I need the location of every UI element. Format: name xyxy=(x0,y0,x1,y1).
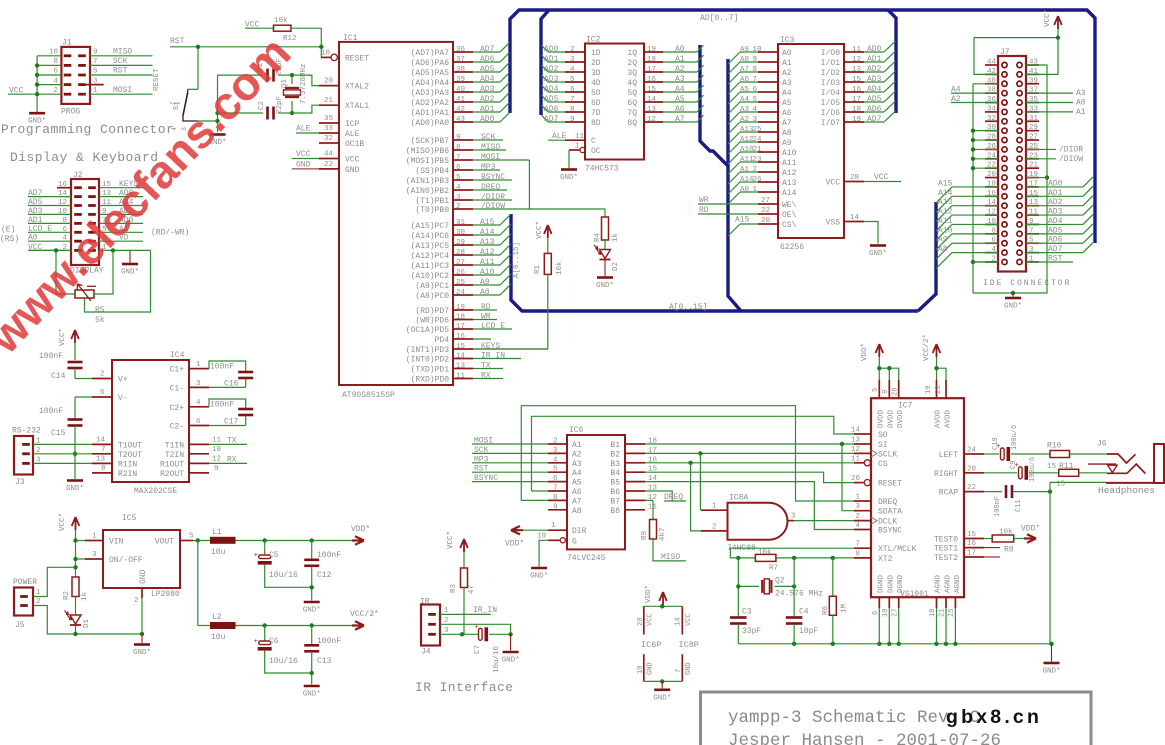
resistor R11 15 xyxy=(1056,462,1107,489)
svg-text:IC6: IC6 xyxy=(569,426,584,435)
svg-text:IC6P: IC6P xyxy=(641,640,661,650)
ic IC7 VS1001 box xyxy=(871,398,964,599)
wire ALE net at IC1 xyxy=(296,125,319,134)
svg-text:C11: C11 xyxy=(1015,499,1023,512)
pin J7 6 left xyxy=(991,237,996,245)
ic IC5 LP2980 box xyxy=(103,514,180,599)
svg-text:1: 1 xyxy=(575,143,580,151)
svg-text:DCLK: DCLK xyxy=(878,518,897,527)
svg-text:2D: 2D xyxy=(591,59,601,68)
supply arrow VCC/2* xyxy=(350,610,379,630)
svg-text:I/O6: I/O6 xyxy=(821,109,840,118)
wire IC2 OC to ground xyxy=(568,150,570,168)
svg-text:5: 5 xyxy=(570,76,575,84)
svg-text:1: 1 xyxy=(551,522,556,530)
capacitor C1 22pF xyxy=(218,58,293,82)
supply arrow VDD* at DIR xyxy=(505,526,524,549)
svg-text:A2: A2 xyxy=(740,116,749,124)
pin IC5 VIN 1 xyxy=(76,533,104,541)
svg-text:R7: R7 xyxy=(769,565,778,573)
wire IC6P IC8P GND rail xyxy=(644,680,683,682)
wire J7 pin 24 to gnd rail xyxy=(971,157,998,161)
svg-text:6: 6 xyxy=(753,86,758,94)
svg-text:20: 20 xyxy=(324,78,334,86)
junction dots at Q1 xyxy=(290,73,294,115)
pin IC3 A10 21 net A10 xyxy=(728,146,797,164)
pin IC8A 2 xyxy=(691,463,728,532)
svg-text:A6: A6 xyxy=(740,76,750,84)
VCC label at R12 xyxy=(245,21,260,30)
svg-text:GND*: GND* xyxy=(121,269,139,277)
pin J7 21 right xyxy=(1029,162,1039,170)
svg-text:T2OUT: T2OUT xyxy=(118,451,142,460)
svg-text:24: 24 xyxy=(967,447,977,455)
svg-text:8: 8 xyxy=(101,465,106,473)
pin IC1 RESET 10 xyxy=(321,50,369,64)
svg-text:3: 3 xyxy=(855,503,860,511)
junction dot C11 xyxy=(1048,489,1052,493)
supply arrow VDD* at R8 xyxy=(1021,525,1040,543)
svg-text:PROG: PROG xyxy=(61,108,80,117)
svg-text:KEYS: KEYS xyxy=(481,342,500,351)
svg-text:AT90S8515SP: AT90S8515SP xyxy=(342,391,395,400)
svg-text:A15: A15 xyxy=(480,218,495,227)
svg-text:VSS: VSS xyxy=(826,219,841,228)
ground GND* below IC2 xyxy=(560,170,578,183)
potentiometer R5 5k xyxy=(75,284,105,325)
svg-text:I/O5: I/O5 xyxy=(821,99,840,108)
pin IC5 VOUT 5 xyxy=(180,533,210,541)
svg-text:(AD4)PA4: (AD4)PA4 xyxy=(411,79,450,88)
svg-text:3: 3 xyxy=(570,56,575,64)
pin J7 11 right xyxy=(1029,209,1039,217)
svg-text:A4: A4 xyxy=(782,89,792,98)
supply arrow VDD* xyxy=(351,525,370,545)
wire VCC rail at J5 xyxy=(75,541,77,578)
pin J1-3 stub xyxy=(86,84,104,86)
pin IC7 TEST1 TEST2 stubs xyxy=(984,548,1000,557)
wire IC6 G to ground xyxy=(539,540,548,566)
svg-text:RST: RST xyxy=(113,67,128,76)
svg-text:(INT1)PD3: (INT1)PD3 xyxy=(406,346,449,355)
svg-text:CS\: CS\ xyxy=(782,221,797,230)
svg-text:A8: A8 xyxy=(782,129,792,138)
pin J7 19 right xyxy=(1029,171,1038,179)
svg-text:GND*: GND* xyxy=(596,282,614,290)
svg-text:AGND: AGND xyxy=(945,574,953,593)
pin IC4 C2+ 4 and capacitor C17 100nF xyxy=(170,399,254,416)
svg-text:4k7: 4k7 xyxy=(659,527,667,541)
svg-text:(SCK)PB7: (SCK)PB7 xyxy=(411,137,450,146)
pin IC3 I/O5 17 net AD5 xyxy=(821,91,896,108)
svg-text:GND*: GND* xyxy=(303,691,321,699)
svg-text:A9: A9 xyxy=(938,236,948,245)
pin IC3 VCC 28 xyxy=(826,173,901,188)
svg-text:+: + xyxy=(254,638,258,646)
wire J7 right A3 A0 A1 xyxy=(1026,89,1086,117)
pin J7 1 right xyxy=(1029,255,1034,263)
pin IC2 4D 5 net AD3 xyxy=(542,75,601,88)
svg-text:AD1: AD1 xyxy=(867,55,882,64)
svg-text:19: 19 xyxy=(925,386,933,394)
pin J7 14 left xyxy=(987,199,997,207)
svg-text:(E): (E) xyxy=(1,226,15,235)
svg-text:10k: 10k xyxy=(274,17,288,25)
svg-text:8: 8 xyxy=(456,144,461,152)
svg-text:10: 10 xyxy=(321,50,331,58)
svg-text:100u/6: 100u/6 xyxy=(1011,425,1019,450)
pin J7 38 left xyxy=(987,87,996,95)
svg-text:MISO: MISO xyxy=(661,553,680,562)
svg-text:ALE: ALE xyxy=(296,125,311,134)
svg-text:6: 6 xyxy=(196,418,201,426)
svg-text:32: 32 xyxy=(324,135,333,143)
svg-text:C1+: C1+ xyxy=(170,366,185,375)
pin J7 36 left xyxy=(987,96,997,104)
svg-text:TEST1: TEST1 xyxy=(934,545,958,554)
pin IC7 DREQ 1 xyxy=(854,494,897,508)
switch S1 reset xyxy=(153,68,198,121)
wire J7 net A13 to bus xyxy=(936,198,998,222)
ground GND* below D2 xyxy=(596,260,614,291)
svg-text:A4: A4 xyxy=(740,96,750,104)
svg-text:9: 9 xyxy=(214,465,219,473)
svg-text:7: 7 xyxy=(553,485,558,493)
svg-text:1: 1 xyxy=(855,494,860,502)
svg-text:17: 17 xyxy=(456,323,465,331)
svg-text:A7: A7 xyxy=(572,497,582,506)
title block frame xyxy=(701,692,1092,745)
svg-text:IC3: IC3 xyxy=(780,36,795,45)
svg-text:7: 7 xyxy=(753,76,758,84)
svg-text:GND: GND xyxy=(296,160,311,169)
svg-text:A14: A14 xyxy=(938,189,953,198)
svg-text:ALE: ALE xyxy=(345,130,360,139)
svg-text:(AD1)PA1: (AD1)PA1 xyxy=(411,109,450,118)
pin IC7 XT2 8 xyxy=(854,550,893,564)
svg-text:+: + xyxy=(475,623,479,631)
svg-text:A11: A11 xyxy=(782,159,797,168)
pin J2 9 right net AD2 xyxy=(99,207,143,216)
pin IC3 A6 4 net A3 xyxy=(728,106,792,124)
wire J7 net AD5 to bus xyxy=(1026,224,1093,236)
pin IC1 (A10)PC2 26 net A10 xyxy=(411,264,511,281)
junction dots VDD stubs xyxy=(877,366,891,370)
supply VCC/2* above IC7 xyxy=(923,334,946,380)
wire XTAL2 net xyxy=(292,75,321,86)
svg-text:/DIOR: /DIOR xyxy=(1059,145,1083,154)
svg-text:3D: 3D xyxy=(591,69,601,78)
svg-text:(A8)PC0: (A8)PC0 xyxy=(415,292,449,301)
svg-text:DIR: DIR xyxy=(572,527,587,536)
svg-text:15: 15 xyxy=(1056,481,1066,489)
pin IC1 (A14)PC6 30 net A14 xyxy=(411,224,511,241)
svg-text:AD5: AD5 xyxy=(480,65,495,74)
svg-text:GND*: GND* xyxy=(560,174,578,182)
supply VDD* at IC6P xyxy=(645,585,667,606)
pin IC7 DVDD 5 9 28 xyxy=(872,380,905,428)
svg-text:14: 14 xyxy=(675,618,683,626)
connector J3 RS-232 xyxy=(12,427,41,488)
svg-text:2: 2 xyxy=(570,46,575,54)
wire J7 net AD4 to bus xyxy=(1026,214,1093,226)
connector J5 POWER xyxy=(13,578,41,630)
svg-text:10u/16: 10u/16 xyxy=(269,657,298,666)
pin J7 2 left xyxy=(991,255,996,263)
pin IC6 B8 11 xyxy=(610,503,657,516)
connector J6 headphone jack xyxy=(1088,440,1164,484)
wire XTL/MCLK net xyxy=(730,548,854,558)
svg-text:IC8A: IC8A xyxy=(729,494,748,503)
svg-text:XTL/MCLK: XTL/MCLK xyxy=(878,545,917,554)
pin IC1 GND 22 xyxy=(292,160,360,175)
svg-text:43: 43 xyxy=(456,116,466,124)
svg-text:A5: A5 xyxy=(675,95,685,104)
wire crystal right column xyxy=(793,558,795,617)
svg-text:28: 28 xyxy=(850,174,859,182)
svg-text:GND*: GND* xyxy=(303,607,321,615)
svg-text:4: 4 xyxy=(456,184,461,192)
svg-text:DREQ: DREQ xyxy=(481,183,500,192)
wire J7 pin 19 gnd xyxy=(1026,177,1047,179)
svg-text:IC4: IC4 xyxy=(170,351,185,360)
svg-text:A10: A10 xyxy=(480,268,495,277)
svg-text:/DIOR: /DIOR xyxy=(481,193,505,202)
pin J7 25 right xyxy=(1029,143,1039,151)
pin J7 10 left xyxy=(987,218,997,226)
wire R5 wiper leg xyxy=(85,250,151,312)
pin IC1 (MISO)PB6 8 net MISO xyxy=(406,143,506,156)
svg-text:2: 2 xyxy=(553,438,558,446)
svg-text:33: 33 xyxy=(324,125,334,133)
svg-text:gbx8.cn: gbx8.cn xyxy=(946,706,1042,728)
svg-text:A11: A11 xyxy=(938,217,953,226)
pin IC1 (INT1)PD3 15 net KEYS xyxy=(406,342,548,355)
ground GND* at rail end xyxy=(1042,644,1060,676)
svg-text:C10: C10 xyxy=(992,437,1000,450)
pin IC6 A8 9 xyxy=(548,503,582,516)
wire J7 A4 A2 xyxy=(951,86,998,104)
svg-text:(WR)PD6: (WR)PD6 xyxy=(415,317,449,326)
svg-text:10k: 10k xyxy=(999,529,1013,537)
pin IC1 VCC 44 xyxy=(292,150,360,165)
pin J7 40 left xyxy=(987,77,997,85)
svg-text:A4: A4 xyxy=(951,86,961,95)
pin IC6 A7 8 xyxy=(548,494,582,507)
svg-text:R8: R8 xyxy=(1004,546,1014,555)
svg-text:C5: C5 xyxy=(269,551,279,560)
wire S1 to ground xyxy=(198,75,218,132)
svg-text:11: 11 xyxy=(575,133,585,141)
svg-text:AD6: AD6 xyxy=(1048,236,1063,245)
wire RIGHT channel xyxy=(984,472,1017,474)
svg-text:DGND: DGND xyxy=(888,574,896,593)
wire MOSI/DIOW to R4 xyxy=(529,160,605,209)
svg-text:(AD7)PA7: (AD7)PA7 xyxy=(411,49,450,58)
svg-text:(TXD)PD1: (TXD)PD1 xyxy=(411,366,450,375)
svg-text:SO: SO xyxy=(878,431,888,440)
svg-text:14: 14 xyxy=(850,214,860,222)
pin J7 12 left xyxy=(987,209,996,217)
svg-text:C13: C13 xyxy=(317,657,332,666)
text IR Interface xyxy=(415,680,513,695)
wire J7 left ground rail xyxy=(973,84,1013,293)
pin IC6 B2 17 xyxy=(610,447,657,460)
junction dot AVDD xyxy=(934,366,938,370)
svg-text:22: 22 xyxy=(761,207,770,215)
svg-text:3: 3 xyxy=(791,513,796,521)
pin IC2 1D 2 net AD0 xyxy=(542,45,601,58)
junction dots IC5 input xyxy=(73,538,77,569)
wire J7 pin 28 to gnd rail xyxy=(971,138,998,142)
svg-text:(MISO)PB6: (MISO)PB6 xyxy=(406,147,449,156)
svg-text:(A10)PC2: (A10)PC2 xyxy=(411,272,450,281)
svg-text:B7: B7 xyxy=(610,497,620,506)
svg-text:A5: A5 xyxy=(782,99,792,108)
svg-text:C1-: C1- xyxy=(170,384,184,393)
pin IC2 4Q 16 net A3 xyxy=(627,75,703,88)
pin J7 22 left xyxy=(987,162,996,170)
svg-text:RST: RST xyxy=(1048,254,1063,263)
bus label AD[0..7] xyxy=(700,14,738,23)
svg-text:A9: A9 xyxy=(740,46,749,54)
svg-text:7: 7 xyxy=(675,669,683,673)
pin IC1 (AD5)PA5 38 net AD5 xyxy=(411,63,510,79)
svg-text:C2+: C2+ xyxy=(170,404,185,413)
text IC6P IC8P xyxy=(641,640,699,650)
svg-text:20: 20 xyxy=(761,217,771,225)
resistor R6 1M xyxy=(822,558,849,644)
svg-text:A3: A3 xyxy=(740,106,750,114)
svg-text:A12: A12 xyxy=(740,136,754,144)
svg-text:R5: R5 xyxy=(95,306,105,315)
svg-text:11: 11 xyxy=(852,46,862,54)
svg-text:A1: A1 xyxy=(782,59,792,68)
pin J7 26 left xyxy=(987,143,997,151)
svg-text:62256: 62256 xyxy=(780,243,804,252)
wire VCC/2 branch xyxy=(198,541,210,626)
svg-text:A[8..15]: A[8..15] xyxy=(513,242,521,278)
pin IC6 A6 7 xyxy=(548,485,582,498)
pin IC2 7D 8 net AD6 xyxy=(542,105,601,118)
wire J7 net A12 to bus xyxy=(936,208,998,232)
svg-text:A12: A12 xyxy=(938,208,953,217)
resistor R2 1k xyxy=(63,577,89,601)
svg-text:VCC*: VCC* xyxy=(536,221,544,239)
wire R5 right leg xyxy=(94,250,113,294)
svg-text:15: 15 xyxy=(647,86,657,94)
svg-text:VOUT: VOUT xyxy=(155,538,174,547)
junction dots J2 bottom xyxy=(54,248,115,252)
svg-text:8Q: 8Q xyxy=(627,119,637,128)
junction dots Q2 row xyxy=(736,584,796,588)
svg-text:1: 1 xyxy=(196,361,201,369)
svg-text:R2OUT: R2OUT xyxy=(160,470,184,479)
svg-text:C9: C9 xyxy=(1010,461,1018,469)
svg-text:35: 35 xyxy=(324,115,334,123)
svg-text:A4: A4 xyxy=(572,469,582,478)
pin IC7 RESET 26 xyxy=(851,475,902,489)
svg-text:C17: C17 xyxy=(224,418,239,427)
svg-text:1: 1 xyxy=(444,607,449,615)
svg-text:27: 27 xyxy=(761,197,770,205)
watermark www.elecfans.com xyxy=(0,27,300,364)
svg-text:GND: GND xyxy=(647,662,655,675)
svg-text:74HC573: 74HC573 xyxy=(585,165,619,174)
svg-text:J7: J7 xyxy=(1000,48,1010,57)
pin J7 27 right xyxy=(1029,134,1038,142)
wire VCC/2 rail xyxy=(236,625,353,627)
svg-text:4: 4 xyxy=(553,456,558,464)
wire net B7 to R9 xyxy=(645,500,653,519)
wire J2 VCC branch to R5 xyxy=(28,250,75,294)
svg-text:(T0)PB0: (T0)PB0 xyxy=(415,206,449,215)
pin IC1 (OC1A)PD5 17 net LCD_E xyxy=(406,322,512,335)
pin IC3 I/O7 19 net AD7 xyxy=(821,111,896,128)
svg-text:A2: A2 xyxy=(782,69,792,78)
svg-text:VCC*: VCC* xyxy=(59,328,67,346)
svg-text:100nF: 100nF xyxy=(39,407,63,416)
junction dot C12 ground xyxy=(310,585,314,589)
pin J7 7 right xyxy=(1029,227,1034,235)
svg-text:18: 18 xyxy=(647,56,656,64)
wire net to IC6 A6 xyxy=(532,490,549,492)
bus A[0..15] loop xyxy=(511,45,936,311)
svg-text:C2-: C2- xyxy=(170,423,184,432)
junction dot C15 ground xyxy=(73,452,77,456)
supply VDD* above IC7 xyxy=(861,343,899,380)
svg-text:L1: L1 xyxy=(212,528,222,537)
pin IC6 A4 5 xyxy=(472,465,582,479)
svg-text:22: 22 xyxy=(324,161,333,169)
svg-text:6: 6 xyxy=(570,86,575,94)
text Display & Keyboard xyxy=(10,150,159,165)
svg-text:19: 19 xyxy=(537,532,546,540)
pin J7 31 right xyxy=(1029,115,1039,123)
svg-text:A3: A3 xyxy=(782,79,792,88)
ground GND* below C15 xyxy=(66,481,84,494)
junction dots XT2 row xyxy=(736,556,835,560)
pin IC4 R1OUT 12 net RX xyxy=(160,455,247,469)
wire headphone ground xyxy=(1050,482,1106,643)
svg-text:I/O0: I/O0 xyxy=(821,49,840,58)
svg-text:RIGHT: RIGHT xyxy=(934,470,958,479)
svg-text:V-: V- xyxy=(118,394,128,403)
svg-text:CS: CS xyxy=(878,460,888,469)
capacitor C7 10u/16 electrolytic xyxy=(474,623,511,673)
wire J7 pin 43 ground xyxy=(1013,65,1047,293)
svg-text:RESET: RESET xyxy=(878,480,902,489)
svg-text:IC5: IC5 xyxy=(122,514,137,523)
pin IC3 A13 26 net A14 xyxy=(728,176,797,194)
pin IC2 8D 9 net AD7 xyxy=(542,115,601,128)
pin IC1 (AD4)PA4 39 net AD4 xyxy=(411,73,510,89)
svg-text:28: 28 xyxy=(456,249,465,257)
pin J7 29 right xyxy=(1029,124,1038,132)
pin IC1 (AD0)PA0 43 net AD0 xyxy=(411,113,510,129)
wire D1 to ground rail xyxy=(76,626,143,635)
pin IC8P VCC 14 xyxy=(675,606,694,634)
resistor R3 47 xyxy=(450,568,476,634)
svg-text:R12: R12 xyxy=(283,35,297,43)
svg-text:5: 5 xyxy=(553,466,558,474)
pin IC3 A11 23 net A11 xyxy=(728,156,797,174)
wire V- to C15 xyxy=(74,397,76,419)
svg-text:40: 40 xyxy=(456,86,466,94)
svg-text:11: 11 xyxy=(851,455,861,463)
pin IC6 B5 14 xyxy=(610,475,657,488)
wire net B6 DREQ stub xyxy=(645,491,686,502)
